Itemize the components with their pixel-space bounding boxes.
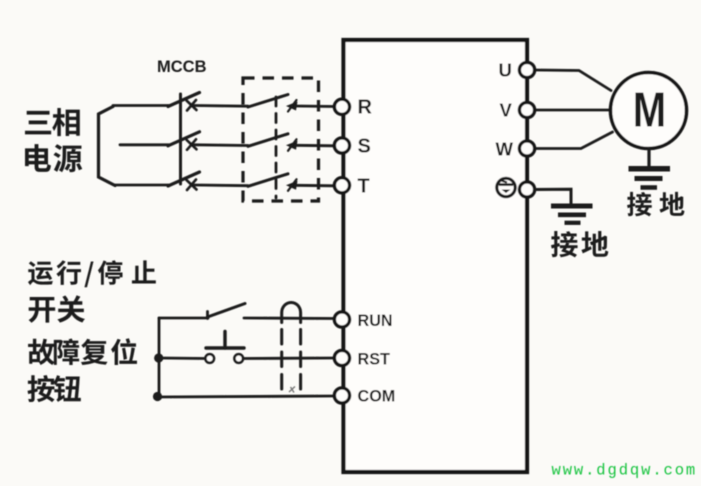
terminal COM: [334, 388, 349, 403]
MCCB pole 1 (R phase) wire+blade+contact: [113, 104, 169, 107]
svg-text:RUN: RUN: [358, 312, 393, 330]
terminal T: [334, 178, 349, 193]
run/stop switch contact tick: [206, 312, 209, 319]
terminal RUN: [334, 312, 349, 327]
reset push button bar+stem: [206, 346, 244, 349]
label 接地 (inverter ground): [551, 231, 608, 257]
wire PE to ground: [535, 189, 572, 204]
svg-text:M: M: [633, 83, 666, 138]
wire to reset button: [158, 357, 206, 360]
MCCB mechanical linkage: [179, 94, 182, 184]
junction dot at RST line: [154, 353, 163, 362]
COM bottom wire: [156, 396, 334, 397]
PE (earth) terminal symbol: [497, 178, 515, 196]
terminal R: [334, 99, 349, 114]
wire U to motor: [535, 70, 612, 91]
svg-text:U: U: [499, 60, 512, 81]
wire button to RST terminal: [243, 357, 335, 360]
run/stop switch blade: [208, 304, 246, 318]
junction dot at COM line: [153, 392, 162, 401]
svg-text:V: V: [500, 100, 513, 121]
svg-text:RST: RST: [358, 350, 390, 368]
svg-text:T: T: [358, 176, 370, 198]
svg-text:www.dgdqw.com: www.dgdqw.com: [552, 462, 698, 480]
terminal RST: [334, 350, 349, 365]
MCCB pole 3 (T phase) wire+blade+contact: [115, 184, 169, 187]
svg-text:COM: COM: [358, 388, 396, 406]
terminal W: [519, 141, 534, 156]
inverter/VFD main box: [344, 40, 528, 472]
label 接地 (motor ground): [627, 192, 684, 216]
wire W to motor: [535, 132, 613, 149]
run/stop switch wire left: [159, 317, 208, 320]
MCCB pole 2 (S phase) wire+blade+contact: [120, 143, 169, 146]
PE terminal circle: [519, 182, 534, 197]
wire V to motor: [535, 109, 610, 112]
svg-text:S: S: [358, 136, 371, 158]
contactor KM dashed enclosure: [243, 78, 319, 201]
terminal V: [519, 102, 534, 117]
three-phase source bracket: [99, 107, 116, 186]
reset push button contacts: [205, 354, 214, 363]
svg-text:MCCB: MCCB: [157, 58, 207, 76]
contactor pole 2 (S) blade+contact: [248, 134, 288, 147]
motor M: [611, 73, 687, 149]
three-phase source label 三相电源: [25, 108, 82, 172]
terminal S: [334, 138, 349, 153]
wire blade to RUN terminal: [244, 317, 335, 320]
shielded cable symbol (arc + dashed screen): [282, 302, 301, 393]
svg-text:W: W: [496, 139, 514, 160]
contactor linkage (dashed): [275, 97, 278, 198]
motor ground stem: [647, 149, 650, 167]
control labels 运行/停止 开关 故障复位 按钮: [28, 260, 156, 402]
svg-text:R: R: [358, 97, 373, 119]
ground symbol (inverter PE): [551, 206, 593, 223]
contactor pole 1 (R) blade+contact: [248, 95, 288, 108]
ground symbol (motor): [629, 169, 671, 188]
left vertical bus wire: [158, 318, 161, 397]
contactor pole 3 (T) blade+contact: [248, 174, 288, 187]
terminal U: [519, 62, 534, 77]
